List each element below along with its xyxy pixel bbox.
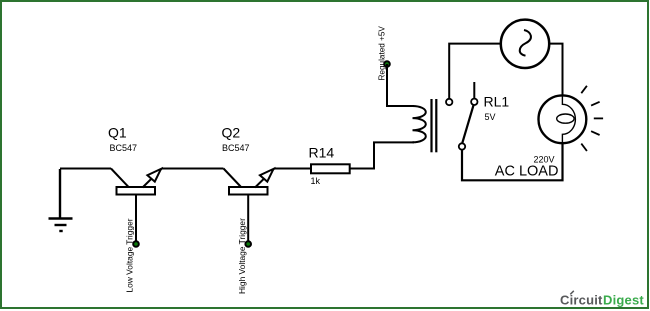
wire Q2 emitter to R14	[274, 168, 311, 170]
svg-text:Circuit: Circuit	[560, 293, 603, 308]
wire R14 to relay coil	[350, 142, 414, 168]
svg-text:Digest: Digest	[603, 293, 644, 308]
relay pole contact	[459, 143, 465, 149]
svg-text:BC547: BC547	[110, 143, 138, 153]
relay contact common	[446, 99, 452, 105]
lamp (AC load)	[539, 95, 587, 143]
svg-text:High Voltage Trigger: High Voltage Trigger	[237, 218, 247, 294]
AC source V1	[501, 20, 549, 68]
relay core lines	[430, 99, 432, 152]
relay coil RL1	[413, 106, 426, 142]
svg-text:1k: 1k	[311, 176, 321, 186]
wire ground to Q1 collector	[60, 168, 111, 170]
relay switch lever	[462, 103, 474, 145]
relay contact NC stub	[473, 82, 475, 99]
wire common contact to AC source	[449, 44, 501, 99]
svg-text:Regulated +5V: Regulated +5V	[378, 26, 387, 81]
lamp rays	[581, 86, 603, 151]
CircuitDigest logo	[560, 291, 644, 308]
wire AC source to lamp	[549, 44, 563, 96]
svg-text:RL1: RL1	[484, 94, 510, 110]
wire +5V to coil top	[387, 64, 414, 106]
svg-text:Q2: Q2	[222, 125, 241, 141]
ground	[49, 169, 73, 231]
svg-text:AC LOAD: AC LOAD	[495, 164, 559, 180]
svg-text:Low Voltage Trigger: Low Voltage Trigger	[124, 218, 134, 292]
transistor Q2	[224, 169, 275, 242]
wire pole contact to lamp	[462, 143, 563, 180]
svg-text:BC547: BC547	[222, 143, 250, 153]
svg-text:Q1: Q1	[108, 125, 127, 141]
wire Q1 emitter to Q2 collector	[162, 168, 224, 170]
svg-text:5V: 5V	[485, 112, 496, 122]
svg-text:R14: R14	[309, 145, 335, 161]
resistor R14	[311, 164, 350, 173]
transistor Q1	[111, 169, 162, 242]
